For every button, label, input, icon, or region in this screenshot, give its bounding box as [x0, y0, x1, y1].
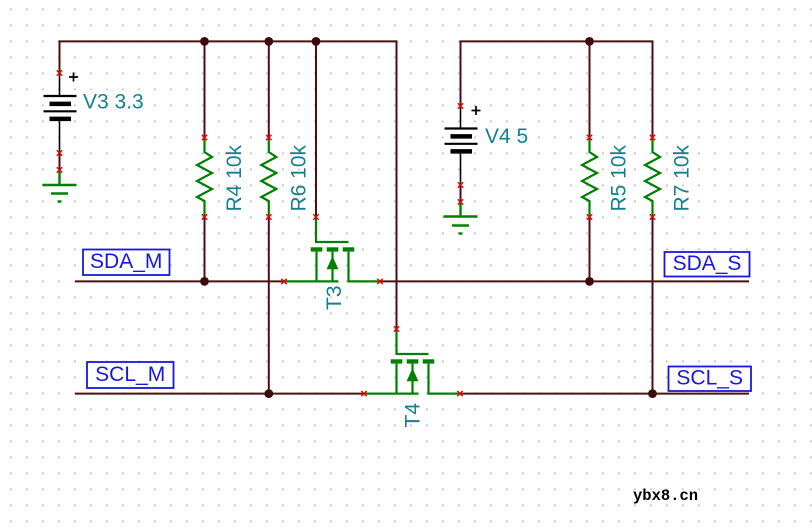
wire: top-right 5V rail — [461, 40, 653, 42]
wire: top-left 3.3V rail — [59, 40, 397, 42]
svg-text:R5 10k: R5 10k — [608, 144, 631, 211]
wire: R7 top — [652, 40, 654, 137]
pin R6 top — [266, 135, 271, 140]
transistor T3 — [284, 217, 381, 281]
pin T3 gate — [313, 214, 318, 219]
pin V4 minus — [458, 182, 463, 187]
net label SDA_S — [665, 252, 750, 277]
resistor R5 — [582, 138, 597, 218]
wire: R5 bottom to SDA_S — [589, 217, 591, 281]
pin R6 bottom — [266, 214, 271, 219]
junction: R7 / SCL_S — [648, 389, 657, 398]
pin R7 bottom — [650, 214, 655, 219]
net label SDA_M — [83, 250, 170, 276]
wire: V3 top stub — [59, 40, 61, 73]
pin GND1 — [57, 167, 62, 172]
pin R5 top — [587, 135, 592, 140]
svg-text:V4 5: V4 5 — [485, 125, 528, 148]
pin T3 drain — [377, 279, 382, 284]
junction: T3 gate / rail — [312, 37, 321, 46]
wire: V4 minus to ground — [460, 185, 462, 202]
wire: V4 top stub — [460, 40, 462, 106]
net label SCL_S — [669, 367, 752, 392]
pin T4 source — [361, 391, 366, 396]
pin V4 plus — [458, 103, 463, 108]
wire: net SCL_M — [75, 393, 364, 395]
resistor R4 — [197, 138, 212, 218]
resistor R7 — [645, 138, 660, 218]
svg-text:R4 10k: R4 10k — [223, 144, 246, 211]
pin T4 gate — [394, 326, 399, 331]
svg-text:R6 10k: R6 10k — [287, 144, 310, 211]
wire: T3 gate from rail — [315, 41, 317, 217]
transistor T4 — [364, 329, 461, 394]
junction: R4 / SDA_M — [200, 277, 209, 286]
pin GND2 — [458, 199, 463, 204]
voltage source V4 — [445, 106, 481, 185]
svg-text:SDA_M: SDA_M — [90, 250, 162, 273]
pin V3 minus — [57, 150, 62, 155]
svg-text:SCL_M: SCL_M — [95, 363, 165, 386]
pin V3 plus — [57, 70, 62, 75]
junction: R4 / rail — [200, 37, 209, 46]
pin R4 bottom — [202, 214, 207, 219]
pin T3 source — [281, 279, 286, 284]
svg-text:T3: T3 — [323, 285, 346, 310]
wire: R4 top — [204, 41, 206, 138]
svg-text:SCL_S: SCL_S — [676, 367, 743, 390]
svg-text:ybx8.cn: ybx8.cn — [633, 487, 698, 505]
wire: V3 minus to ground — [59, 153, 61, 170]
wire: R7 bottom to SCL_S — [652, 217, 654, 394]
wire: R5 top — [589, 41, 591, 138]
wire: R4 bottom to SDA_M — [204, 217, 206, 281]
wire: net SDA_S — [380, 280, 749, 282]
junction: R5 / rail — [585, 37, 594, 46]
ground GND2 — [444, 202, 478, 234]
junction: R6 / SCL_M — [264, 389, 273, 398]
net label SCL_M — [87, 362, 174, 388]
wire: net SCL_S — [460, 393, 749, 395]
ground GND1 — [43, 170, 77, 202]
resistor R6 — [261, 138, 276, 218]
junction: R5 / SDA_S — [585, 277, 594, 286]
pin R5 bottom — [587, 214, 592, 219]
wire: net SDA_M — [75, 280, 284, 282]
pin T4 drain — [457, 391, 462, 396]
svg-text:T4: T4 — [401, 403, 424, 428]
pin R7 top — [650, 135, 655, 140]
wire: R6 top — [268, 41, 270, 138]
voltage source V3 — [44, 73, 79, 154]
wire: rail to T4 gate vertical — [396, 40, 398, 329]
junction: R6 / rail — [264, 37, 273, 46]
svg-text:V3 3.3: V3 3.3 — [83, 91, 144, 114]
wire: R6 bottom to SCL_M — [268, 217, 270, 394]
pin R4 top — [202, 135, 207, 140]
svg-text:SDA_S: SDA_S — [673, 252, 742, 275]
svg-text:R7 10k: R7 10k — [671, 144, 694, 211]
